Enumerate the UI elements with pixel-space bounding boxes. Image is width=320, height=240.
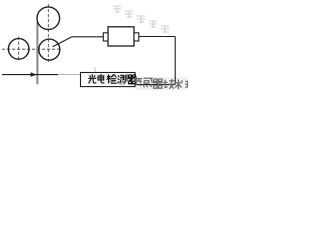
wm 感	[143, 78, 152, 87]
left roller	[8, 39, 29, 60]
watermark overlap inside detector box	[108, 77, 135, 85]
wm partial char at right edge	[185, 81, 190, 87]
wire bottom to detector	[135, 84, 175, 86]
wm 传	[134, 76, 142, 86]
watermark tick above detector box	[94, 67, 96, 72]
arrowhead	[31, 72, 38, 76]
label density smudge	[88, 74, 135, 85]
label 检	[107, 74, 117, 83]
detector box	[81, 73, 136, 87]
measured strip (thick gray vertical line)	[36, 22, 38, 84]
watermark density smudge	[135, 77, 188, 90]
centerline horizontal (both bottom rollers)	[2, 48, 62, 50]
centerline vertical (left roller)	[18, 37, 20, 62]
label 器	[128, 75, 137, 84]
wire down right side	[174, 37, 176, 85]
top roller	[37, 7, 60, 30]
centerline vertical (top + right roller)	[47, 4, 49, 62]
wm 术	[175, 79, 183, 89]
label 电	[98, 74, 104, 83]
wm 器	[153, 79, 163, 88]
wire to lamp left tab	[72, 36, 103, 38]
watermark bottom (gray CJK text)	[134, 76, 190, 89]
leader diagonal from right roller	[53, 37, 73, 47]
lamp body U1	[108, 27, 134, 46]
lamp right tab	[134, 33, 139, 41]
lamp left tab	[103, 33, 108, 41]
wm 技	[164, 79, 175, 89]
faint line to detector box	[58, 74, 81, 76]
motion arrow line	[2, 74, 58, 76]
label 测	[118, 74, 127, 83]
label 光	[88, 74, 96, 83]
right roller	[39, 39, 60, 60]
watermark top-right (faint gray diagonal text)	[113, 6, 169, 33]
wire from lamp right tab	[139, 36, 175, 38]
